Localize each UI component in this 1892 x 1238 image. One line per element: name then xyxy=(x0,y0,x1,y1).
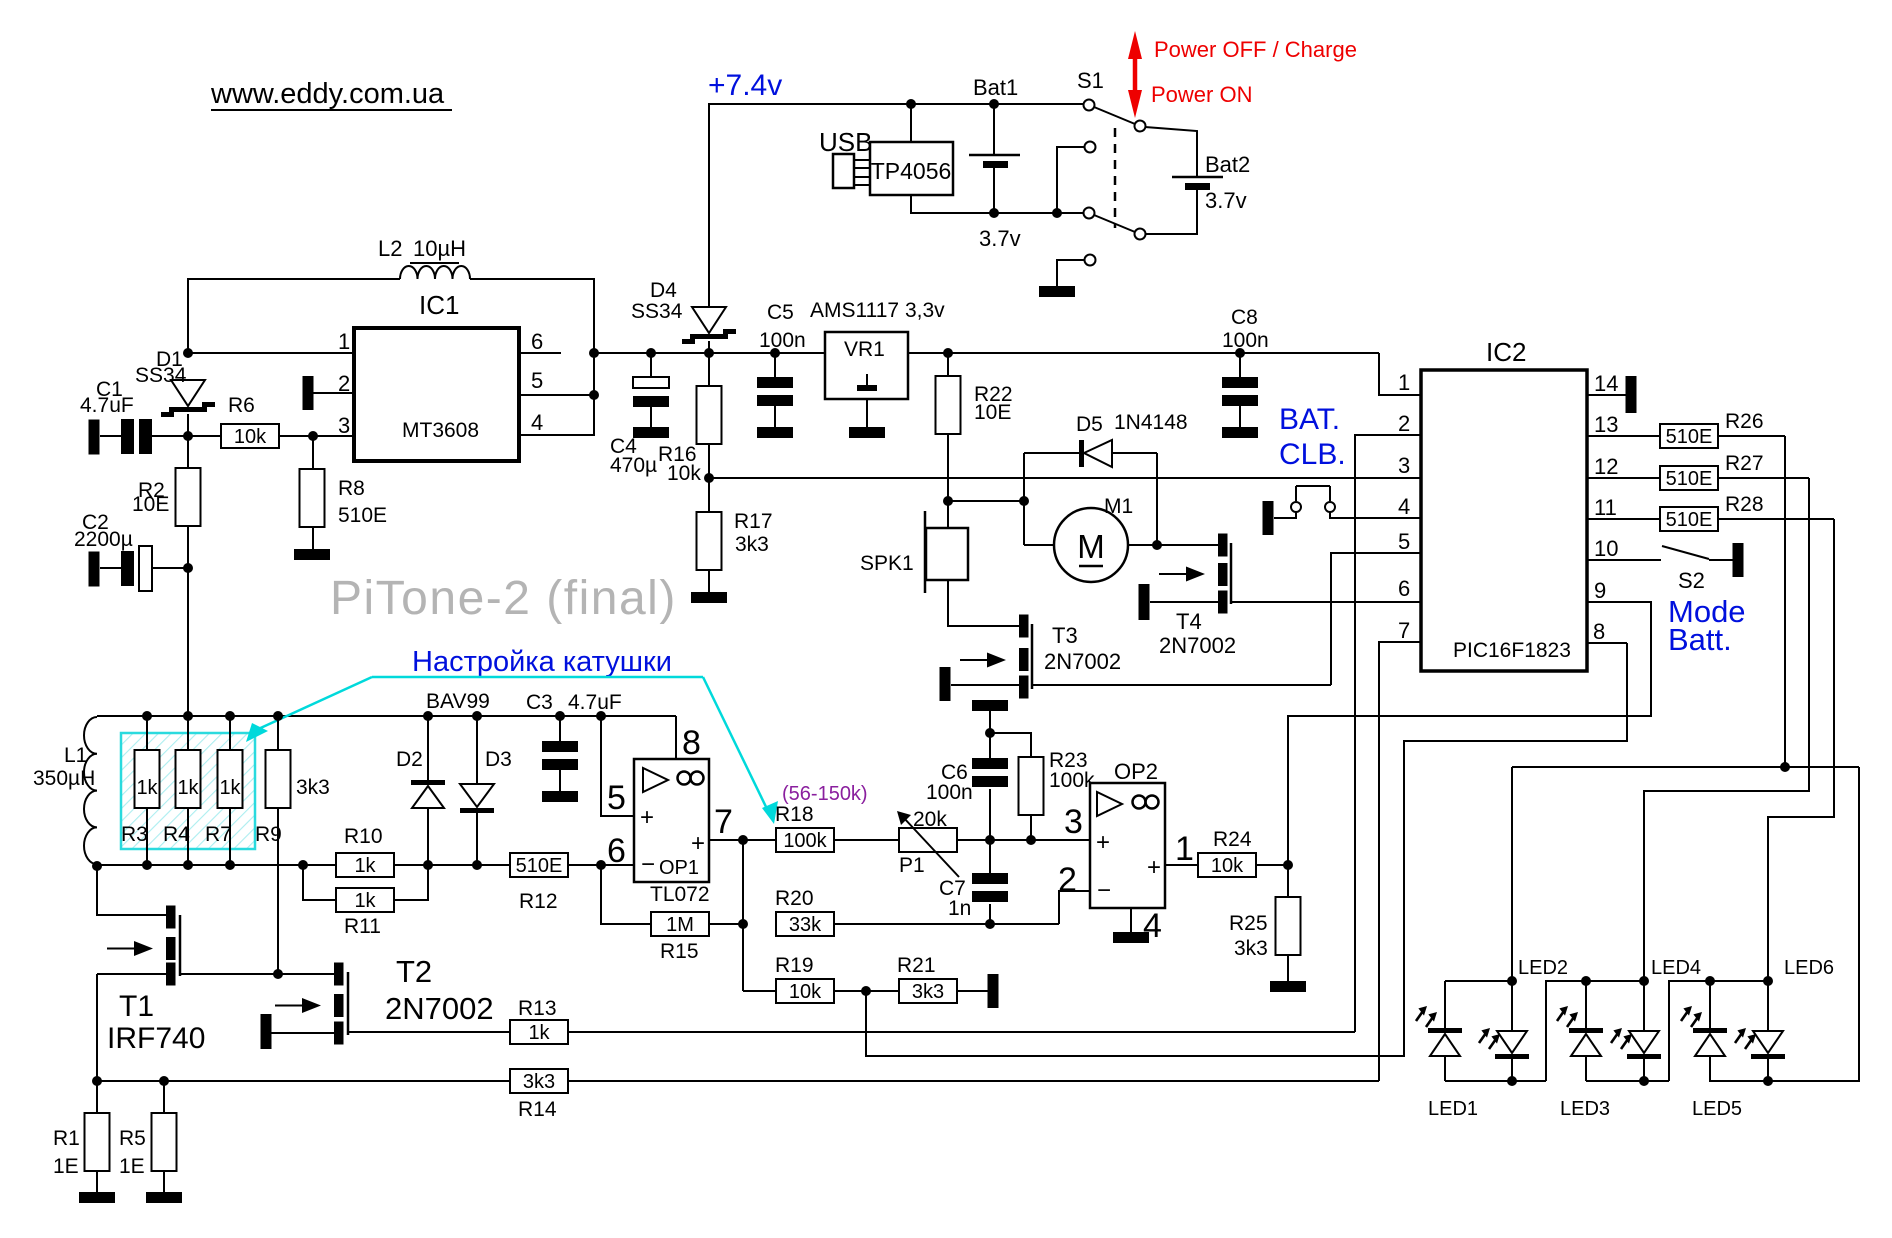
svg-text:D5: D5 xyxy=(1076,413,1103,436)
resistor R3 1k xyxy=(121,716,160,865)
resistor R7 1k xyxy=(205,716,243,865)
wire: S1 lower throw to ground xyxy=(1057,260,1084,286)
wire: LED pair1 bottom rail to pair2 top xyxy=(1445,981,1644,1081)
wire: P1 to OP2 pin3 xyxy=(957,839,1090,841)
junction OP1 pin6 / R15 branch xyxy=(596,860,606,870)
svg-text:9: 9 xyxy=(1594,578,1606,603)
svg-text:S2: S2 xyxy=(1678,568,1705,593)
wire: R14 to IC2 pin7 xyxy=(568,642,1421,1081)
switch S2 xyxy=(1587,546,1733,593)
svg-text:BAT.: BAT. xyxy=(1279,403,1340,436)
junction LED6 top xyxy=(1763,976,1773,986)
node: BAV99 label xyxy=(426,690,490,713)
svg-text:3.7v: 3.7v xyxy=(1205,188,1247,213)
junction LED2 bottom xyxy=(1507,1076,1517,1086)
junction coil top / R9 xyxy=(273,711,283,721)
svg-text:−: − xyxy=(641,851,655,878)
svg-text:IC1: IC1 xyxy=(419,290,459,320)
svg-text:510E: 510E xyxy=(338,504,387,527)
wire: coil top bus xyxy=(97,716,676,759)
svg-text:2N7002: 2N7002 xyxy=(1159,633,1236,658)
wire: R22 node to M1 left xyxy=(948,500,1024,502)
svg-text:PIC16F1823: PIC16F1823 xyxy=(1453,639,1571,662)
junction input node / D1 anode xyxy=(183,348,193,358)
junction VR1 output / R22 xyxy=(943,348,953,358)
svg-text:Bat2: Bat2 xyxy=(1205,152,1250,177)
svg-text:3: 3 xyxy=(1064,803,1083,841)
svg-text:TP4056: TP4056 xyxy=(871,158,952,184)
resistor R23 100k xyxy=(1019,749,1096,840)
capacitor C5 100n xyxy=(757,301,806,427)
junction R5 top xyxy=(159,1076,169,1086)
wire: D4 cathode to rail xyxy=(708,341,710,353)
wire: T1 source down xyxy=(96,974,98,1081)
wire: +7.4v rail from D4 to S1 xyxy=(709,104,1084,306)
svg-text:D2: D2 xyxy=(396,748,423,771)
wire: S1 middle throw to 3.7v rail xyxy=(1057,147,1084,213)
svg-text:TL072: TL072 xyxy=(650,883,710,906)
svg-text:33k: 33k xyxy=(789,914,822,936)
wire: Bat1 positive lead xyxy=(993,104,995,154)
svg-text:100k: 100k xyxy=(1049,769,1095,792)
svg-text:LED6: LED6 xyxy=(1784,957,1834,979)
junction R19/R21 node xyxy=(861,986,871,996)
LED LED4 xyxy=(1611,957,1701,1081)
wire: OP1 output xyxy=(709,839,776,841)
junction FB node R8 xyxy=(308,431,318,441)
svg-text:T2: T2 xyxy=(396,954,432,989)
svg-text:R19: R19 xyxy=(775,954,814,977)
wire: TP4056 VCC stub xyxy=(910,104,912,142)
svg-text:R12: R12 xyxy=(519,890,558,913)
svg-text:OP2: OP2 xyxy=(1114,759,1158,784)
junction R1 top xyxy=(92,1076,102,1086)
node: Mode Batt. label xyxy=(1668,594,1746,657)
ground below OP2 xyxy=(1113,932,1149,943)
speaker SPK1 xyxy=(860,501,968,593)
svg-text:5: 5 xyxy=(1398,529,1410,554)
ground below R25 xyxy=(1270,981,1306,992)
svg-text:R1: R1 xyxy=(53,1127,80,1150)
svg-text:470µ: 470µ xyxy=(610,454,657,477)
svg-text:R26: R26 xyxy=(1725,410,1764,433)
wire: D5 right leg to M1 right xyxy=(1156,453,1158,545)
svg-text:R5: R5 xyxy=(119,1127,146,1150)
junction M1 left / D5 xyxy=(1019,496,1029,506)
inductor L2 10uH xyxy=(378,236,470,279)
resistor R18 100k xyxy=(775,803,834,852)
wire: 3.3v supply rail xyxy=(594,353,1421,395)
svg-text:MT3608: MT3608 xyxy=(402,419,479,442)
svg-text:1k: 1k xyxy=(354,855,376,877)
svg-text:R27: R27 xyxy=(1725,452,1764,475)
wire: R18 to P1 xyxy=(834,839,899,841)
wire: IC1 pin6 stub xyxy=(520,352,561,354)
capacitor C8 100n xyxy=(1222,306,1269,427)
resistor R6 10k xyxy=(221,394,279,448)
ground above C6 (inverted) xyxy=(972,700,1008,733)
node: Power OFF / Charge label xyxy=(1154,37,1357,62)
wire: OP2 pin4 to ground xyxy=(1130,908,1132,932)
svg-text:T1: T1 xyxy=(119,990,154,1023)
svg-text:10k: 10k xyxy=(667,462,701,485)
svg-text:+7.4v: +7.4v xyxy=(708,69,782,102)
resistor R11 1k xyxy=(303,865,428,938)
diode D5 1N4148 xyxy=(1024,411,1188,467)
svg-text:7: 7 xyxy=(1398,618,1410,643)
junction coil top / R7 xyxy=(225,711,235,721)
svg-text:P1: P1 xyxy=(899,854,925,877)
svg-text:510E: 510E xyxy=(1666,426,1713,448)
svg-text:R14: R14 xyxy=(518,1098,557,1121)
svg-text:10E: 10E xyxy=(132,493,169,516)
node: +7.4v net label xyxy=(708,69,782,102)
svg-text:510E: 510E xyxy=(1666,468,1713,490)
ground bar right of R21 xyxy=(988,974,999,1008)
svg-text:R17: R17 xyxy=(734,510,773,533)
battery Bat2 xyxy=(1172,152,1250,213)
wire: R12 to OP1 pin6 xyxy=(568,864,634,866)
svg-text:SPK1: SPK1 xyxy=(860,552,914,575)
resistor R9 3k3 xyxy=(255,716,330,973)
battery Bat1 xyxy=(969,75,1021,251)
svg-text:2: 2 xyxy=(1398,411,1410,436)
op-amp OP1 TL072 xyxy=(607,724,733,906)
switch S1 xyxy=(1077,68,1146,266)
wire: IC2 pin12 to R27 xyxy=(1587,477,1660,479)
LED LED5 xyxy=(1681,981,1742,1120)
svg-text:Настройка катушки: Настройка катушки xyxy=(412,646,672,678)
wire: IC2 pin11 to R28 xyxy=(1587,518,1660,520)
capacitor C6 100n xyxy=(926,733,1008,873)
svg-text:7: 7 xyxy=(714,803,733,841)
svg-text:1: 1 xyxy=(338,329,350,354)
svg-text:R3: R3 xyxy=(121,823,148,846)
ground below R17 xyxy=(691,592,727,603)
svg-text:LED1: LED1 xyxy=(1428,1098,1478,1120)
junction D4 / rail xyxy=(704,348,714,358)
junction D2 top xyxy=(423,711,433,721)
wire: S1 to Bat2 positive xyxy=(1145,127,1197,176)
resistor R17 3k3 xyxy=(697,478,773,592)
wire: IC2 pin13 to R26 xyxy=(1587,435,1660,437)
junction D3 bottom xyxy=(472,860,482,870)
junction C4 / rail xyxy=(646,348,656,358)
svg-text:1E: 1E xyxy=(119,1155,145,1178)
resistor R22 10E xyxy=(936,353,1013,501)
svg-text:2200µ: 2200µ xyxy=(74,528,133,551)
junction Bat1 bottom xyxy=(989,208,999,218)
svg-text:3k3: 3k3 xyxy=(912,981,944,1003)
inductor L1 350uH xyxy=(33,717,97,864)
resistor R20 33k xyxy=(775,887,834,936)
svg-text:100n: 100n xyxy=(1222,329,1269,352)
svg-text:10k: 10k xyxy=(234,426,267,448)
svg-text:LED2: LED2 xyxy=(1518,957,1568,979)
wire: IC1 pin3 feedback node xyxy=(148,435,354,437)
svg-text:3k3: 3k3 xyxy=(296,776,330,799)
transistor T3 2N7002 xyxy=(940,615,1122,702)
charger module U TP4056 xyxy=(870,142,953,195)
svg-text:L1: L1 xyxy=(64,744,87,767)
wire: OP1 pin5 lead xyxy=(601,716,634,816)
pushbutton BAT CLB xyxy=(1274,486,1421,518)
svg-text:1k: 1k xyxy=(354,890,376,912)
junction D3 top xyxy=(472,711,482,721)
wire: left column C1 node to C2 node xyxy=(187,436,189,568)
svg-text:S1: S1 xyxy=(1077,68,1104,93)
resistor R28 510E xyxy=(1660,493,1764,531)
svg-text:T3: T3 xyxy=(1052,623,1078,648)
regulator VR1 AMS1117 3.3v xyxy=(810,299,945,427)
resistor R5 1E xyxy=(119,1081,177,1192)
resistor R4 1k xyxy=(163,716,201,865)
svg-text:8: 8 xyxy=(1593,619,1605,644)
svg-text:R4: R4 xyxy=(163,823,190,846)
svg-text:R8: R8 xyxy=(338,477,365,500)
junction C1 / D1 cathode node xyxy=(183,431,193,441)
junction coil top / R4 column xyxy=(183,711,193,721)
node: coil tuning highlight box xyxy=(121,733,255,849)
junction LED6 bottom xyxy=(1763,1076,1773,1086)
svg-text:3.7v: 3.7v xyxy=(979,226,1021,251)
wire: SPK1 to T3 drain xyxy=(948,580,1019,626)
wire: T2 source to R13 xyxy=(348,1031,510,1033)
svg-text:C3: C3 xyxy=(526,691,553,714)
wire: IC1 pin1 to input node xyxy=(188,352,354,354)
svg-text:D3: D3 xyxy=(485,748,512,771)
ground below C3 xyxy=(542,791,578,802)
resistor R21 3k3 xyxy=(897,954,957,1003)
junction C8 / rail xyxy=(1235,348,1245,358)
svg-text:(56-150k): (56-150k) xyxy=(782,783,868,805)
junction C2 node xyxy=(183,563,193,573)
resistor R24 10k xyxy=(1198,828,1256,877)
ground bar at S2 xyxy=(1733,543,1744,577)
resistor R13 1k xyxy=(510,997,568,1044)
wire: R24 to feedback node xyxy=(1256,864,1288,866)
wire: IC2 pin3 sense line xyxy=(709,477,1421,479)
wire: coil bottom bus xyxy=(97,865,303,915)
wire: R19 to R21 xyxy=(834,990,899,992)
svg-text:Batt.: Batt. xyxy=(1668,622,1732,657)
wire: LED pair1 top rail xyxy=(1445,980,1512,982)
svg-text:M1: M1 xyxy=(1104,495,1133,518)
LED LED1 xyxy=(1416,981,1478,1120)
junction Bat1 top xyxy=(989,99,999,109)
svg-text:BAV99: BAV99 xyxy=(426,690,490,713)
junction C3 top xyxy=(555,711,565,721)
resistor R14 3k3 xyxy=(510,1069,568,1121)
svg-text:T4: T4 xyxy=(1176,609,1202,634)
wire: T4 source to IC2 pin6 xyxy=(1231,601,1421,603)
junction R3 bottom xyxy=(142,860,152,870)
junction output column / 7.4v rail xyxy=(589,348,599,358)
wire: 3.7v bottom rail TP4056 to S1 xyxy=(911,195,1083,213)
svg-text:3: 3 xyxy=(338,413,350,438)
junction LED4 bottom xyxy=(1639,1076,1649,1086)
svg-text:LED3: LED3 xyxy=(1560,1098,1610,1120)
svg-text:LED4: LED4 xyxy=(1651,957,1701,979)
svg-text:3k3: 3k3 xyxy=(1234,937,1268,960)
ground at S1 lower throw xyxy=(1039,286,1075,297)
svg-text:PiTone-2 (final): PiTone-2 (final) xyxy=(330,572,677,625)
svg-text:C8: C8 xyxy=(1231,306,1258,329)
svg-text:6: 6 xyxy=(607,832,626,870)
svg-text:3k3: 3k3 xyxy=(523,1071,555,1093)
junction R24 / R25 / pin9 net xyxy=(1283,860,1293,870)
svg-text:Power OFF / Charge: Power OFF / Charge xyxy=(1154,37,1357,62)
ground bar at IC2 pin14 xyxy=(1626,376,1637,413)
junction IC1 pin5 / output column xyxy=(589,390,599,400)
svg-text:LED5: LED5 xyxy=(1692,1098,1742,1120)
wire: D1 cathode to FB node xyxy=(187,414,189,436)
wire: C6 top branch to R23 xyxy=(990,733,1031,758)
junction T1 source / T2 drain / R9 xyxy=(273,969,283,979)
node: Настройка катушки callout xyxy=(246,646,778,824)
wire: R26 to LED pair1 top net xyxy=(1718,436,1785,767)
svg-text:1M: 1M xyxy=(666,914,694,936)
svg-text:C5: C5 xyxy=(767,301,794,324)
svg-text:Power ON: Power ON xyxy=(1151,82,1252,107)
svg-text:R10: R10 xyxy=(344,825,383,848)
svg-text:10µH: 10µH xyxy=(413,236,466,261)
svg-text:6: 6 xyxy=(1398,576,1410,601)
capacitor C7 1n xyxy=(939,873,1008,924)
junction LED5 top xyxy=(1705,976,1715,986)
svg-text:4: 4 xyxy=(531,410,543,435)
LED LED6 xyxy=(1735,957,1834,1081)
svg-text:1: 1 xyxy=(1398,370,1410,395)
svg-text:R7: R7 xyxy=(205,823,232,846)
LED LED3 xyxy=(1557,981,1610,1120)
wire: D5 left leg xyxy=(1023,453,1025,501)
motor M1 xyxy=(1054,495,1133,582)
svg-text:R9: R9 xyxy=(255,823,282,846)
svg-text:L2: L2 xyxy=(378,236,402,261)
wire: Bat1 negative lead xyxy=(993,166,995,213)
ground below R1 xyxy=(79,1192,115,1203)
junction C6/C7 column on signal xyxy=(985,835,995,845)
wire: left column down to coil bus xyxy=(187,568,189,716)
wire: R13 to IC2 pin2 xyxy=(568,435,1421,1032)
svg-text:510E: 510E xyxy=(1666,509,1713,531)
svg-text:11: 11 xyxy=(1594,495,1617,520)
svg-text:SS34: SS34 xyxy=(631,300,683,323)
svg-text:10k: 10k xyxy=(789,981,822,1003)
svg-text:www.eddy.com.ua: www.eddy.com.ua xyxy=(210,78,445,110)
junction R4 bottom xyxy=(183,860,193,870)
svg-text:350µH: 350µH xyxy=(33,767,95,790)
svg-text:D4: D4 xyxy=(650,279,677,302)
resistor R2 10E xyxy=(132,468,201,526)
svg-text:3k3: 3k3 xyxy=(735,533,769,556)
svg-text:13: 13 xyxy=(1594,412,1618,437)
wire: LED2 column to R26 net xyxy=(1512,767,1859,1081)
svg-text:6: 6 xyxy=(531,329,543,354)
wire: output node vertical xyxy=(743,840,776,991)
wire: IC1 pin5 stub to output column xyxy=(520,394,594,396)
junction LED2 top xyxy=(1507,976,1517,986)
IC2 PIC16F1823 xyxy=(1398,337,1618,671)
svg-text:10k: 10k xyxy=(1211,855,1244,877)
junction LED4 top xyxy=(1639,976,1649,986)
capacitor C3 4.7uF xyxy=(526,691,622,791)
svg-text:3: 3 xyxy=(1398,453,1410,478)
svg-text:OP1: OP1 xyxy=(659,857,699,879)
wire: T3 source to IC2 pin5 xyxy=(1032,553,1421,685)
svg-text:510E: 510E xyxy=(516,855,563,877)
ground below C5 xyxy=(757,427,793,438)
wire: M1 right to T4 drain xyxy=(1128,544,1218,546)
svg-text:R28: R28 xyxy=(1725,493,1764,516)
svg-text:+: + xyxy=(1096,829,1110,856)
svg-text:R25: R25 xyxy=(1229,912,1268,935)
svg-text:R13: R13 xyxy=(518,997,557,1020)
junction C7 bottom / R20 line xyxy=(985,919,995,929)
ground below R8 xyxy=(294,549,330,560)
node: site label www.eddy.com.ua xyxy=(210,78,452,110)
junction R16 / R17 / IC2 pin3 net xyxy=(704,473,714,483)
junction R26 / LED2 column xyxy=(1780,762,1790,772)
capacitor C1 4.7uF xyxy=(80,378,188,455)
transistor T4 2N7002 xyxy=(1139,534,1237,659)
svg-text:100k: 100k xyxy=(783,830,827,852)
junction coil bottom corner xyxy=(92,861,102,871)
LED LED2 xyxy=(1479,957,1568,1081)
svg-text:+: + xyxy=(640,804,654,831)
ground below C8 xyxy=(1222,427,1258,438)
svg-text:Bat1: Bat1 xyxy=(973,75,1018,100)
wire: R28 to LED pair3 top net xyxy=(1718,519,1834,981)
resistor R19 10k xyxy=(775,954,834,1003)
svg-text:IC2: IC2 xyxy=(1486,337,1526,367)
svg-text:IRF740: IRF740 xyxy=(107,1022,205,1055)
junction M1 right / D5 xyxy=(1152,540,1162,550)
wire: R15 to output node xyxy=(709,923,743,925)
svg-text:R6: R6 xyxy=(228,394,255,417)
diode D3 (BAV99 b) xyxy=(460,716,512,865)
svg-text:10: 10 xyxy=(1594,536,1618,561)
svg-text:2: 2 xyxy=(1058,861,1077,899)
wire: LED pair2 bottom rail to pair3 top xyxy=(1586,981,1768,1081)
svg-text:100n: 100n xyxy=(759,329,806,352)
svg-text:5: 5 xyxy=(531,368,543,393)
svg-text:USB: USB xyxy=(819,127,872,157)
svg-text:1k: 1k xyxy=(136,777,158,799)
wire: Bat2 negative to S1 xyxy=(1146,189,1197,234)
svg-text:5: 5 xyxy=(607,779,626,817)
svg-text:+: + xyxy=(1147,854,1161,881)
svg-text:14: 14 xyxy=(1594,371,1618,396)
junction at TP4056 VCC xyxy=(906,99,916,109)
svg-text:M: M xyxy=(1077,528,1105,565)
wire: M1 left lead xyxy=(1024,501,1055,545)
wire: R20 to OP2 pin2 xyxy=(834,891,1090,924)
wire: OP2 output to R24 xyxy=(1165,864,1198,866)
svg-text:SS34: SS34 xyxy=(135,364,187,387)
junction 3.7v rail / S1 feed xyxy=(1052,208,1062,218)
svg-text:−: − xyxy=(1097,877,1111,904)
diode D4 SS34 xyxy=(631,279,736,344)
node: BAT. CLB. label xyxy=(1279,403,1346,471)
capacitor C4 470u (electrolytic) xyxy=(610,353,669,477)
svg-text:10E: 10E xyxy=(974,401,1011,424)
wire: bus segment R10 to D2 xyxy=(395,864,510,866)
transistor T2 2N7002 xyxy=(261,954,494,1049)
svg-text:CLB.: CLB. xyxy=(1279,438,1346,471)
junction D2 bottom xyxy=(423,860,433,870)
